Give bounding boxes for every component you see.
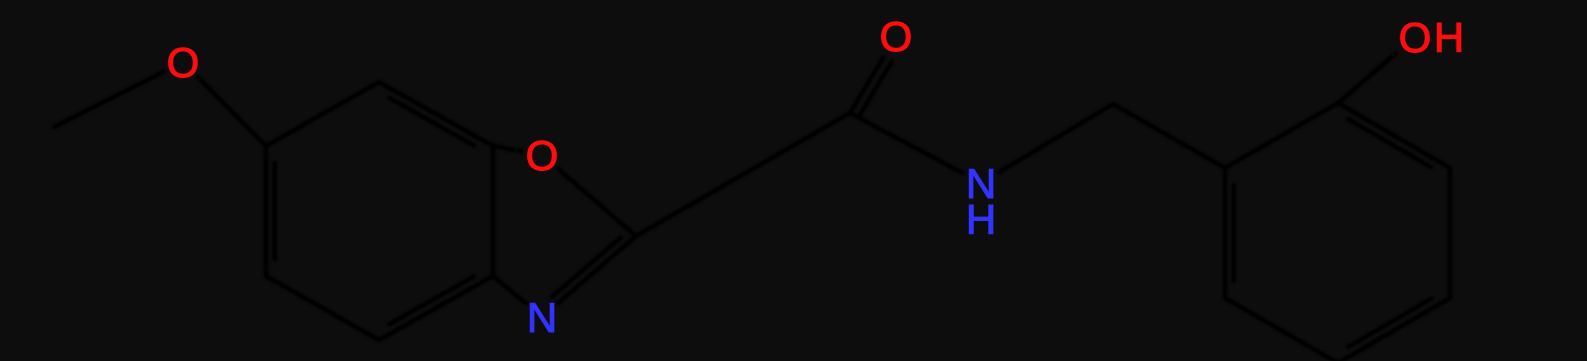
inner line C7=C7a [390, 98, 474, 145]
bond O1-C2 [558, 169, 636, 236]
inner line C6'=C1' [1232, 185, 1237, 281]
bond C7-C7a [379, 82, 493, 146]
inner line C2=N3 [552, 237, 621, 297]
bond C4'-C5' [1338, 298, 1450, 361]
svg-text:O: O [880, 13, 913, 60]
inner line C4'=C5' [1348, 299, 1431, 347]
bond C(=O)-N amide [850, 113, 963, 173]
bond C4-C5 [266, 276, 379, 340]
bond C5-C6 [264, 146, 269, 276]
bond C5'-C6' [1225, 298, 1338, 361]
svg-text:O: O [1399, 14, 1432, 61]
inner line C2'=C3' [1348, 119, 1431, 167]
svg-text:H: H [966, 196, 996, 243]
svg-text:O: O [526, 132, 559, 179]
svg-text:O: O [167, 39, 200, 86]
bond C6-C7 [266, 82, 379, 146]
bond C3a-C4 [379, 276, 493, 340]
bond N-CH2 [999, 104, 1113, 172]
bond C2'-C3' [1338, 103, 1450, 168]
bond C2-N3 [558, 236, 636, 303]
bond C2'-OH [1338, 53, 1396, 103]
bond N3-C3a [493, 276, 526, 304]
bond C7a-C3a [491, 146, 496, 276]
bond C2-CH2-C(=O) chain [636, 113, 850, 236]
bond C=O main line [850, 58, 883, 114]
bond O-C6 (methoxy to ring) [198, 77, 266, 146]
bond C3'-C4' [1448, 168, 1453, 298]
bond CH3-O (methoxy) [54, 71, 164, 127]
inner line C5=C6 [273, 163, 278, 259]
bond C1'-C2' [1225, 103, 1338, 168]
inner line C3a=C4 [390, 277, 474, 324]
bond C6'-C1' [1223, 168, 1228, 298]
C=O second line [860, 62, 892, 115]
svg-text:N: N [527, 294, 557, 341]
svg-text:H: H [1434, 14, 1464, 61]
bond C7a-O1 [493, 146, 521, 151]
bond CH2-C1' [1113, 104, 1225, 168]
